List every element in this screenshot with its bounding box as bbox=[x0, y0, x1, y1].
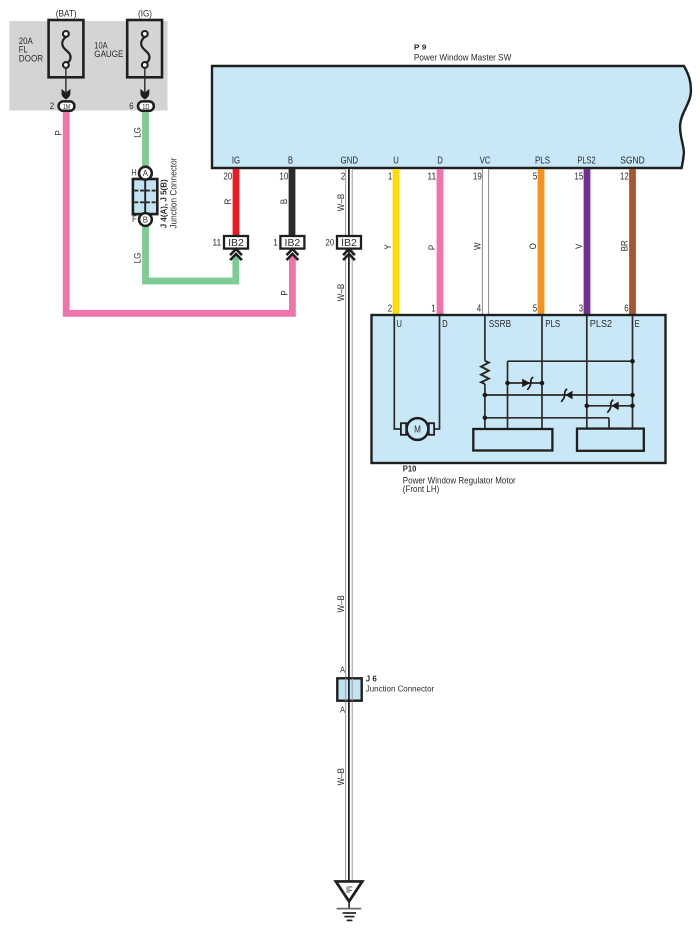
svg-text:SSRB: SSRB bbox=[489, 319, 512, 330]
svg-text:20: 20 bbox=[325, 236, 334, 247]
relay box right bbox=[577, 429, 644, 451]
svg-text:U: U bbox=[393, 156, 399, 167]
svg-text:P: P bbox=[426, 245, 437, 250]
wire U internal bbox=[394, 316, 401, 429]
ground IF bbox=[333, 880, 365, 920]
svg-text:DOOR: DOOR bbox=[19, 53, 43, 63]
wire h3 bbox=[485, 394, 633, 396]
svg-text:D: D bbox=[442, 319, 448, 330]
svg-text:3: 3 bbox=[579, 303, 583, 314]
svg-text:P: P bbox=[52, 130, 63, 135]
svg-text:J 4(A), J 5(B): J 4(A), J 5(B) bbox=[159, 179, 169, 228]
svg-text:VC: VC bbox=[480, 156, 491, 167]
wire PLS internal bbox=[541, 316, 543, 429]
svg-text:Junction Connector: Junction Connector bbox=[168, 158, 178, 229]
wire LG from junction connector B to IB2 pin 11 bbox=[146, 224, 236, 281]
connector IB2 pin 1 bbox=[273, 236, 304, 260]
svg-text:H: H bbox=[132, 167, 137, 177]
svg-text:D: D bbox=[437, 156, 443, 167]
wire E internal bbox=[632, 316, 634, 429]
svg-text:LG: LG bbox=[132, 253, 143, 264]
svg-text:P 9: P 9 bbox=[414, 43, 427, 52]
svg-text:B: B bbox=[288, 156, 294, 167]
terminal B of J5 bbox=[139, 213, 152, 226]
svg-text:PLS: PLS bbox=[535, 156, 550, 167]
wire PLS2 internal bbox=[586, 316, 588, 429]
connector IB2 pin 20 bbox=[325, 236, 361, 260]
svg-text:B: B bbox=[278, 199, 289, 204]
svg-text:4: 4 bbox=[477, 303, 482, 314]
wire W from P9 VC to P10 pin 4 bbox=[482, 169, 489, 316]
svg-text:1: 1 bbox=[273, 236, 277, 247]
P9 pin labels bbox=[232, 156, 645, 167]
svg-text:A: A bbox=[340, 704, 345, 714]
svg-text:O: O bbox=[527, 243, 538, 249]
svg-text:6: 6 bbox=[624, 303, 628, 314]
svg-text:Y: Y bbox=[382, 244, 393, 250]
svg-text:1: 1 bbox=[431, 303, 435, 314]
svg-text:12: 12 bbox=[620, 172, 629, 183]
svg-text:SGND: SGND bbox=[620, 156, 645, 167]
wire P from P9 D to P10 pin 1 bbox=[437, 169, 444, 316]
svg-text:R: R bbox=[222, 198, 233, 204]
svg-text:10: 10 bbox=[279, 172, 288, 183]
wire h2 diode row bbox=[508, 382, 543, 384]
wire B from P9 B to IB2 pin 1 bbox=[289, 169, 296, 236]
fuse F1 20A FL DOOR bbox=[19, 9, 84, 78]
svg-text:B: B bbox=[143, 215, 148, 224]
svg-text:U: U bbox=[396, 319, 402, 330]
svg-text:5: 5 bbox=[533, 172, 537, 183]
motor M bbox=[401, 418, 434, 440]
connector P10 Power Window Regulator Motor (Front LH) bbox=[372, 315, 666, 494]
terminal oval 1D pin 6 bbox=[129, 100, 154, 111]
svg-text:5: 5 bbox=[533, 303, 537, 314]
relay box left bbox=[473, 429, 552, 451]
svg-text:1: 1 bbox=[388, 172, 392, 183]
svg-text:LG: LG bbox=[132, 127, 143, 138]
wire R from P9 IG to IB2 pin 11 bbox=[233, 169, 240, 236]
svg-text:PLS: PLS bbox=[545, 319, 560, 330]
wire W-B from P9 GND to ground IF bbox=[345, 169, 353, 882]
P9 pin numbers bbox=[223, 172, 628, 183]
svg-text:F: F bbox=[132, 214, 137, 224]
svg-text:20: 20 bbox=[223, 172, 232, 183]
wire Y from P9 U to P10 pin 2 bbox=[393, 169, 400, 316]
node stub 2 bbox=[608, 418, 610, 429]
fuse F2 10A GAUGE bbox=[94, 9, 162, 78]
svg-text:W–B: W–B bbox=[335, 194, 346, 211]
P10 pin labels bbox=[396, 319, 640, 330]
svg-text:BR: BR bbox=[619, 240, 630, 251]
wire h4 bbox=[587, 405, 633, 407]
svg-text:1M: 1M bbox=[63, 102, 70, 111]
connector IB2 pin 11 bbox=[212, 236, 248, 260]
svg-text:2: 2 bbox=[388, 303, 392, 314]
svg-text:6: 6 bbox=[129, 100, 133, 111]
junction connector J6 bbox=[337, 665, 434, 715]
svg-text:15: 15 bbox=[574, 172, 583, 183]
svg-text:11: 11 bbox=[427, 172, 436, 183]
wire P from terminal 1M to IB2 pin 1 bbox=[66, 110, 292, 313]
svg-text:W–B: W–B bbox=[335, 768, 346, 785]
svg-text:IG: IG bbox=[232, 156, 240, 167]
svg-text:P: P bbox=[279, 290, 290, 295]
wire h5 bbox=[485, 417, 609, 419]
junction connector J4(A)/J5(B) bbox=[132, 158, 179, 229]
svg-text:(IG): (IG) bbox=[138, 9, 152, 19]
svg-text:(BAT): (BAT) bbox=[56, 9, 77, 19]
svg-text:2: 2 bbox=[50, 100, 54, 111]
svg-text:W: W bbox=[472, 242, 483, 250]
svg-text:2: 2 bbox=[341, 172, 345, 183]
svg-text:PLS2: PLS2 bbox=[577, 156, 595, 167]
svg-text:PLS2: PLS2 bbox=[590, 319, 612, 330]
svg-text:(Front LH): (Front LH) bbox=[403, 484, 440, 494]
wire SSRB internal bbox=[484, 316, 486, 361]
resistor bbox=[481, 361, 489, 384]
svg-text:Junction Connector: Junction Connector bbox=[366, 683, 435, 693]
svg-text:A: A bbox=[340, 665, 345, 675]
diode D1 (points right) bbox=[522, 377, 533, 390]
wire BR from P9 SGND to P10 pin 6 bbox=[629, 169, 636, 316]
svg-text:Power Window Master SW: Power Window Master SW bbox=[414, 52, 512, 62]
svg-text:W–B: W–B bbox=[335, 595, 346, 612]
svg-text:IF: IF bbox=[346, 885, 353, 896]
svg-text:A: A bbox=[143, 169, 149, 178]
fuse block background panel bbox=[9, 21, 167, 111]
fuse F1 lead and arrow to terminal bbox=[62, 68, 71, 100]
svg-text:11: 11 bbox=[212, 236, 221, 247]
diode D3 (points left) bbox=[607, 400, 618, 413]
P10 pin numbers bbox=[388, 303, 629, 314]
svg-text:M: M bbox=[414, 425, 421, 436]
connector P9 Power Window Master SW bbox=[212, 43, 691, 169]
diode D2 (points left) bbox=[561, 389, 572, 402]
svg-text:E: E bbox=[635, 319, 641, 330]
wire O from P9 PLS to P10 pin 5 bbox=[538, 169, 545, 316]
wire LG from terminal 1D to junction connector A bbox=[142, 110, 149, 169]
svg-text:P10: P10 bbox=[403, 465, 417, 474]
svg-text:W–B: W–B bbox=[335, 284, 346, 301]
svg-text:GND: GND bbox=[341, 156, 359, 167]
terminal oval 1M pin 2 bbox=[50, 100, 75, 111]
svg-text:V: V bbox=[573, 243, 584, 249]
wire h1 bbox=[508, 360, 633, 362]
svg-text:1D: 1D bbox=[142, 102, 150, 111]
terminal A of J4 bbox=[139, 167, 152, 180]
svg-text:19: 19 bbox=[473, 172, 482, 183]
wire V from P9 PLS2 to P10 pin 3 bbox=[584, 169, 591, 316]
fuse F2 lead and arrow to terminal bbox=[140, 68, 149, 100]
svg-text:GAUGE: GAUGE bbox=[94, 49, 123, 59]
junction dots bbox=[483, 359, 635, 420]
P10 internal circuit bbox=[394, 316, 632, 429]
wire D internal bbox=[433, 316, 440, 429]
node stub bbox=[507, 361, 509, 429]
